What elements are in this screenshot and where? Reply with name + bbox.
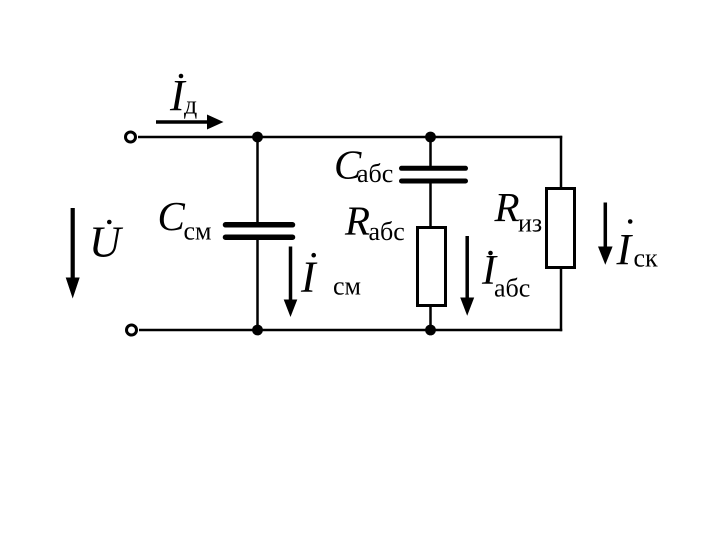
- wire: right branch top (corner to Rиз): [560, 136, 563, 187]
- svg-text:абс: абс: [369, 217, 405, 246]
- current arrow Iабс (right of Rабс): [460, 236, 474, 316]
- label Iсм with overdot: [300, 253, 361, 302]
- label U with overdot: [89, 218, 124, 267]
- label Iск with overdot: [616, 219, 659, 274]
- capacitor Cабс plates: [402, 168, 466, 181]
- wire: Cабс bottom plate to Rабс top: [429, 183, 432, 226]
- svg-text:из: из: [518, 208, 542, 237]
- label Iабс with overdot: [481, 248, 530, 303]
- wire top segment: T1 to node A: [138, 136, 258, 139]
- wire top segment: node B to right corner: [431, 136, 563, 139]
- svg-text:см: см: [184, 217, 212, 246]
- wire: Cсм bottom plate down to node C: [256, 240, 259, 331]
- node C (junction dot, bottom of Cсм branch): [252, 325, 263, 336]
- svg-text:д: д: [184, 91, 197, 120]
- svg-text:см: см: [333, 272, 361, 301]
- svg-text:абс: абс: [494, 274, 530, 303]
- label Cсм: [158, 193, 212, 246]
- node B (junction dot, top of Cабс branch): [425, 132, 436, 143]
- current arrow Iск (right of Rиз): [598, 203, 613, 265]
- node A (junction dot, top of Cсм branch): [252, 132, 263, 143]
- label Rиз: [494, 184, 543, 238]
- wire bottom segment: T2 to node C: [139, 329, 258, 332]
- wire bottom segment: node D to right corner: [431, 329, 563, 332]
- label Iд with overdot: [169, 71, 197, 120]
- svg-text:U: U: [89, 218, 124, 267]
- svg-text:C: C: [158, 193, 186, 239]
- resistor Rиз (rectangle): [547, 189, 575, 268]
- wire bottom segment: node C to node D: [258, 329, 431, 332]
- svg-text:ск: ск: [634, 244, 659, 273]
- label Rабс: [344, 198, 405, 247]
- voltage arrow U (left side, downward): [66, 208, 80, 299]
- svg-text:R: R: [344, 198, 370, 244]
- svg-text:абс: абс: [357, 159, 393, 188]
- terminal T2 (bottom-left input): [127, 325, 137, 335]
- label Cабс: [334, 142, 393, 189]
- wire: Rабс bottom to node D: [429, 307, 432, 330]
- capacitor Cсм plates: [226, 225, 293, 237]
- wire: right branch bottom (Rиз to corner): [560, 269, 563, 331]
- svg-text:I: I: [616, 225, 634, 274]
- current arrow Iд (on top wire): [156, 115, 224, 130]
- current arrow Iсм (below Cсм): [284, 247, 298, 318]
- svg-text:I: I: [300, 253, 318, 302]
- wire top segment: node A to node B: [258, 136, 431, 139]
- resistor Rабс (rectangle): [418, 228, 446, 306]
- terminal T1 (top-left input): [126, 132, 136, 142]
- svg-text:R: R: [494, 184, 520, 230]
- wire: node B down to Cабс top plate: [429, 137, 432, 166]
- node D (junction dot, bottom of Rабс branch): [425, 325, 436, 336]
- wire: node A down to Cсм top plate: [256, 137, 259, 223]
